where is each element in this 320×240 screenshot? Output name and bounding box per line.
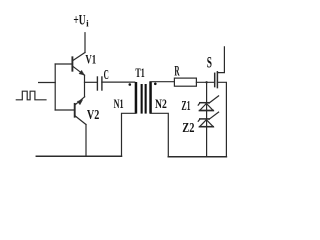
svg-text:Z1: Z1 xyxy=(181,98,190,113)
resistor R xyxy=(174,78,196,86)
wire V1 base xyxy=(55,63,71,65)
wire secondary top to R xyxy=(150,81,174,83)
label N1 xyxy=(114,97,124,111)
wire R to gate xyxy=(196,81,214,83)
label Z1 xyxy=(181,98,190,113)
wire output to capacitor xyxy=(85,81,97,83)
capacitor C xyxy=(97,77,102,90)
svg-text:R: R xyxy=(174,63,180,79)
label V2 xyxy=(87,107,100,122)
transistor V1 xyxy=(72,53,85,76)
svg-text:N2: N2 xyxy=(155,97,167,111)
wire bottom rail right xyxy=(168,156,226,158)
label V1 xyxy=(85,53,96,67)
label Z2 xyxy=(182,121,194,136)
svg-text:V2: V2 xyxy=(87,107,100,122)
wire V2 base xyxy=(55,109,74,111)
wire capacitor to transformer primary xyxy=(102,81,135,83)
square wave symbol xyxy=(16,91,46,100)
svg-text:V1: V1 xyxy=(85,53,96,67)
wire bottom rail left xyxy=(36,155,121,157)
svg-text:S: S xyxy=(207,55,212,72)
transformer core xyxy=(141,84,147,114)
transformer polarity dot primary xyxy=(129,83,132,86)
wire zener branch vertical xyxy=(206,82,208,157)
label T1 xyxy=(135,66,144,80)
node +Ui label xyxy=(73,13,89,29)
transistor V2 xyxy=(75,97,86,125)
transformer polarity dot secondary xyxy=(154,83,157,86)
wire V2 collector down xyxy=(85,125,87,157)
transformer T1 secondary winding xyxy=(149,82,152,114)
zener diode Z1 xyxy=(198,96,218,111)
wire emitter junction vertical xyxy=(84,75,86,97)
wire base bus vertical xyxy=(54,64,56,110)
label R xyxy=(174,63,180,79)
svg-text:i: i xyxy=(86,19,89,29)
svg-text:+U: +U xyxy=(73,13,85,29)
wire +Ui supply stub xyxy=(84,33,86,53)
label C xyxy=(104,68,109,83)
wire secondary bottom return xyxy=(151,113,169,157)
node gate-zener junction xyxy=(205,81,207,83)
svg-text:C: C xyxy=(104,68,109,83)
svg-text:N1: N1 xyxy=(114,97,124,111)
svg-text:Z2: Z2 xyxy=(182,121,194,136)
wire input xyxy=(39,82,56,84)
wire primary bottom return xyxy=(122,113,136,156)
transistor S MOSFET xyxy=(215,47,227,157)
transformer T1 primary winding xyxy=(135,82,138,114)
label S xyxy=(207,55,212,72)
svg-text:T1: T1 xyxy=(135,66,144,80)
zener diode Z2 xyxy=(198,112,218,127)
label N2 xyxy=(155,97,167,111)
